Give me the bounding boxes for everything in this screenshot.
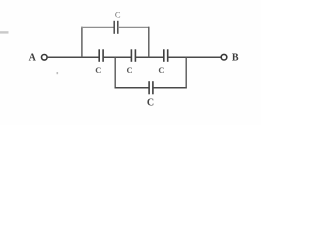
svg-text:C: C — [95, 65, 101, 75]
svg-text:C: C — [147, 98, 154, 109]
svg-text:A: A — [29, 52, 37, 63]
capacitor C4 on top branch — [114, 10, 121, 34]
wire C3 to B — [168, 56, 221, 58]
wire riser top-right — [148, 27, 150, 58]
wire bottom branch left — [115, 87, 150, 89]
wire bottom branch right — [153, 87, 187, 89]
terminal B — [221, 54, 227, 60]
svg-text:B: B — [232, 53, 239, 64]
wire C1 to C2 — [103, 56, 131, 58]
wire C2 to C3 — [135, 56, 163, 58]
svg-text:C: C — [158, 65, 164, 75]
svg-text:C: C — [127, 65, 133, 75]
capacitor C2 on main wire — [127, 49, 136, 75]
capacitor C5 on bottom branch — [147, 81, 154, 108]
capacitor C1 on main wire — [95, 49, 103, 75]
wire A to C1 — [48, 56, 100, 58]
wire riser bottom-left — [114, 57, 116, 88]
capacitor C3 on main wire — [158, 49, 167, 75]
wire top branch right — [118, 26, 150, 28]
wire riser bottom-right — [185, 57, 187, 88]
wire riser top-left — [81, 27, 83, 58]
svg-text:C: C — [115, 10, 121, 20]
terminal A — [42, 55, 48, 61]
wire top branch left — [81, 26, 114, 28]
